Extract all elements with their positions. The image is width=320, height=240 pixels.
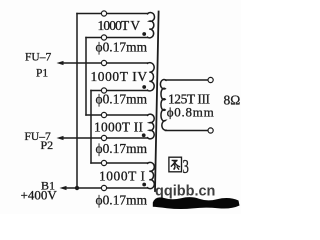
arrowhead P2: [57, 136, 64, 140]
svg-text:FU–7: FU–7: [25, 52, 51, 64]
svg-text:3: 3: [183, 157, 189, 178]
character 图 (figure) drawn as strokes: [169, 157, 182, 172]
wire: winding II top: [86, 114, 148, 116]
svg-text:ϕ0.17mm: ϕ0.17mm: [96, 192, 148, 207]
arrowhead B1: [60, 186, 67, 190]
wire: winding IV top / P1 lead: [62, 62, 148, 64]
coil winding I: [148, 162, 155, 188]
wire: secondary top: [166, 79, 209, 81]
terminal: II top: [101, 112, 106, 117]
terminal: secondary bottom: [208, 128, 213, 133]
polarity dot I: [142, 183, 146, 187]
terminal: IV top: [101, 60, 106, 65]
coil winding II: [148, 114, 155, 139]
terminal circles: [101, 11, 213, 191]
terminal: I bottom: [101, 185, 106, 190]
terminal: secondary top: [208, 77, 213, 82]
svg-text:1000T I: 1000T I: [99, 169, 145, 184]
polarity dot II: [142, 133, 146, 137]
svg-text:1000T II: 1000T II: [94, 120, 143, 135]
watermark blob: [153, 197, 240, 209]
wire: winding V bottom: [86, 37, 148, 39]
arrowhead P1: [57, 61, 64, 65]
coil winding V: [148, 13, 155, 38]
wire: winding I bottom / B1 lead: [64, 187, 148, 189]
svg-text:ϕ0.8mm: ϕ0.8mm: [167, 105, 214, 120]
coil secondary: [160, 80, 166, 131]
wire: winding IV bottom: [91, 90, 148, 92]
coil winding IV: [148, 63, 155, 91]
svg-text:qqibb.cn: qqibb.cn: [155, 184, 215, 200]
svg-text:ϕ0.17mm: ϕ0.17mm: [96, 40, 148, 55]
svg-text:8Ω: 8Ω: [224, 93, 241, 108]
wire: winding I top: [91, 162, 148, 164]
wire: secondary bottom: [166, 130, 209, 132]
terminal: V top: [101, 11, 106, 16]
transformer core: [155, 12, 159, 192]
wire: V bottom down to II top: [85, 38, 87, 116]
svg-text:P2: P2: [41, 138, 54, 152]
terminal: II bottom: [101, 135, 106, 140]
svg-text:1000T V: 1000T V: [98, 18, 141, 33]
svg-text:1000T IV: 1000T IV: [91, 69, 148, 84]
wire: winding V top: [77, 13, 148, 15]
svg-text:P1: P1: [36, 68, 48, 80]
polarity dot V: [142, 32, 146, 36]
wire: left bus from winding V top down to B1 junction: [76, 14, 78, 189]
svg-text:ϕ0.17mm: ϕ0.17mm: [96, 92, 148, 107]
wire: IV bottom down to I top: [90, 91, 92, 164]
wire: winding II bottom / P2 lead: [62, 137, 148, 139]
svg-text:ϕ0.17mm: ϕ0.17mm: [96, 141, 148, 156]
terminal: IV bottom: [101, 88, 106, 93]
polarity dot IV: [142, 85, 146, 89]
terminal: V bottom: [101, 35, 106, 40]
svg-text:+400V: +400V: [21, 188, 58, 203]
terminal: I top: [101, 160, 106, 165]
junction dot B1: [75, 186, 79, 190]
